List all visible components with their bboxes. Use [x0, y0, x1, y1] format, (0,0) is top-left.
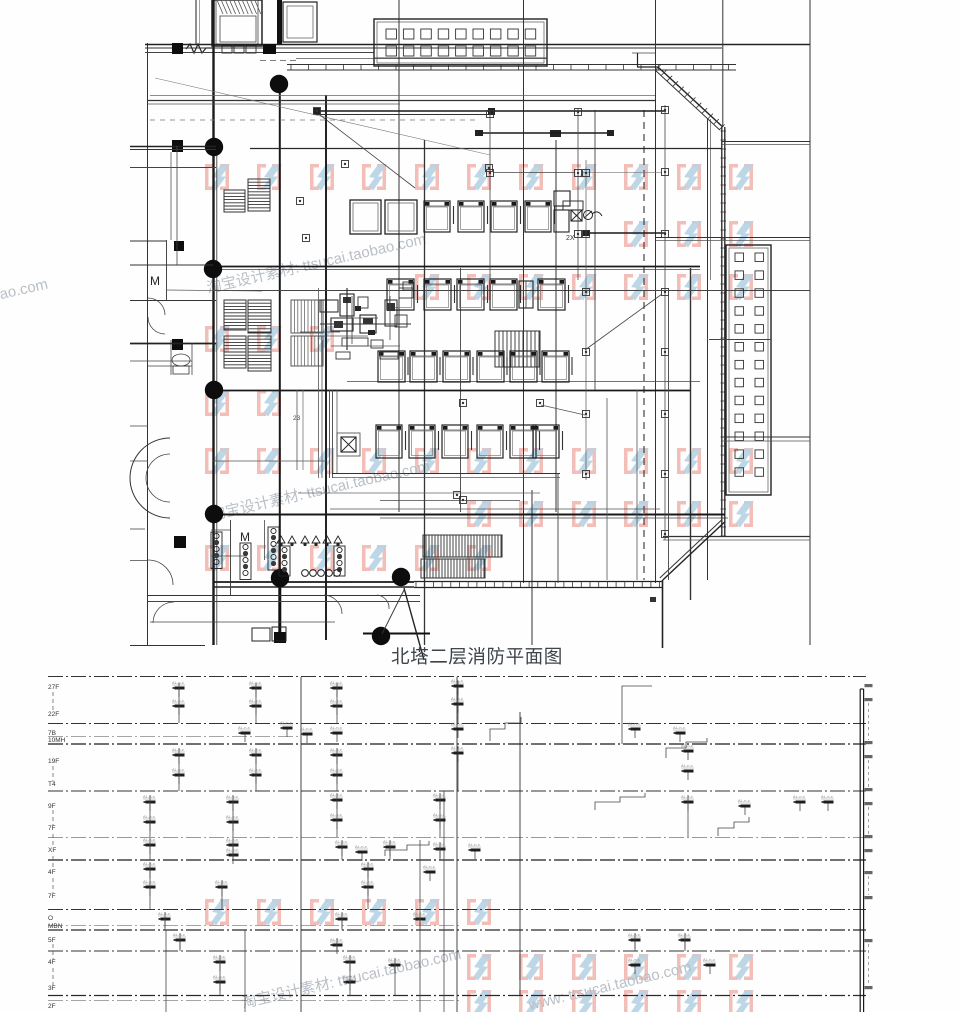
building corner diagonal top-right — [658, 67, 723, 127]
desk row1 — [525, 201, 551, 232]
floor line — [48, 950, 866, 952]
svg-text:AL-n-x: AL-n-x — [143, 814, 155, 819]
floor line — [48, 929, 866, 931]
svg-text:AL-n-x: AL-n-x — [280, 720, 292, 725]
svg-text:AL-n-x: AL-n-x — [673, 725, 685, 730]
grid line G (x=556) — [555, 140, 557, 512]
svg-text:AL-n-x: AL-n-x — [143, 861, 155, 866]
svg-text:AL-n-x: AL-n-x — [821, 794, 833, 799]
floor line — [48, 859, 866, 861]
svg-text:AL-n-x: AL-n-x — [172, 767, 184, 772]
floor line — [48, 925, 460, 927]
svg-text:22F: 22F — [48, 711, 59, 718]
column dot — [271, 569, 289, 587]
walls x=607,637,668 — [606, 398, 608, 580]
desk row line y=381 — [347, 381, 700, 383]
vent hatch block — [224, 300, 246, 330]
stepped connector 3 — [595, 793, 645, 810]
svg-text:AL-n-x: AL-n-x — [143, 837, 155, 842]
wall column square — [174, 241, 184, 251]
grid line x=722 upper — [722, 0, 724, 127]
svg-text:AL-n-x: AL-n-x — [213, 954, 225, 959]
desk row1 — [491, 201, 517, 232]
riser vertical x=245 — [244, 930, 246, 1012]
desk row2 — [387, 279, 414, 310]
stepped connector 1 — [490, 717, 521, 741]
svg-text:AL-n-x: AL-n-x — [330, 792, 342, 797]
pipe x=460 — [460, 268, 462, 512]
wall column square — [172, 43, 183, 54]
pipe line y=114 — [317, 114, 491, 116]
svg-text:AL-n-x: AL-n-x — [238, 725, 250, 730]
svg-text:10MH: 10MH — [48, 737, 66, 744]
grid h-line y=237 — [656, 237, 810, 239]
riser diagram — [48, 191, 873, 1012]
leader (541,405)-(585,415) — [541, 405, 585, 415]
desk row3 — [410, 351, 437, 382]
left rooms partition lines — [130, 146, 216, 148]
thin line y=148.5 — [250, 148, 722, 150]
lines under corridor — [148, 595, 420, 597]
floor line — [48, 995, 866, 997]
wall column square — [263, 44, 276, 54]
vent hatch block — [224, 190, 245, 212]
floor arrow — [52, 834, 54, 848]
desk row4 — [442, 425, 468, 458]
svg-text:AL-n-x: AL-n-x — [330, 747, 342, 752]
svg-text:AL-n-x: AL-n-x — [226, 814, 238, 819]
svg-text:O: O — [48, 915, 53, 922]
svg-text:M: M — [150, 274, 160, 288]
vent hatch block — [248, 300, 271, 333]
valve box X lower — [341, 437, 356, 452]
desk row 1 big squares — [350, 200, 381, 234]
duct run horizontal y=473 — [332, 473, 560, 475]
thin lines y=493/509 — [298, 492, 540, 494]
desk row2 — [538, 279, 565, 310]
grid line A (x=213) — [212, 0, 214, 645]
top edge left of corner — [637, 66, 658, 68]
valve box with X — [571, 210, 582, 221]
svg-text:AL-n-x: AL-n-x — [678, 932, 690, 937]
leader diagonal 3 — [320, 115, 415, 188]
svg-text:AL-n-x: AL-n-x — [383, 839, 395, 844]
svg-text:AL-n-x: AL-n-x — [738, 798, 750, 803]
wall x=690 — [690, 268, 692, 600]
stairwell arcs — [130, 438, 170, 518]
svg-text:2F: 2F — [48, 1003, 56, 1010]
indicator stack — [240, 543, 251, 580]
desk row3 — [542, 351, 569, 382]
svg-text:4F: 4F — [48, 959, 56, 966]
svg-text:AL-n-x: AL-n-x — [249, 767, 261, 772]
branch column risers — [178, 683, 180, 723]
svg-text:AL-n-x: AL-n-x — [213, 974, 225, 979]
floor arrow — [52, 944, 54, 960]
svg-text:7B: 7B — [48, 730, 56, 737]
dashed line y=120 — [150, 119, 480, 121]
leader diagonal 2 — [585, 294, 662, 350]
svg-text:AL-n-x: AL-n-x — [335, 839, 347, 844]
indicator stack — [268, 527, 279, 570]
machine room box — [283, 2, 317, 42]
svg-text:AL-n-x: AL-n-x — [423, 864, 435, 869]
grid line H (x=655) — [655, 0, 657, 583]
wall pair x=707 — [707, 119, 709, 580]
shaft wall thick — [277, 0, 282, 44]
svg-text:MBN: MBN — [48, 923, 63, 930]
svg-text:AL-n-x: AL-n-x — [628, 721, 640, 726]
door arcs bottom-left — [148, 560, 173, 585]
svg-text:5F: 5F — [48, 937, 56, 944]
grid line B (x=279) riser — [279, 92, 281, 569]
svg-text:AL-n-x: AL-n-x — [226, 847, 238, 852]
svg-text:AL-n-x: AL-n-x — [468, 842, 480, 847]
grid h-line y=290 — [213, 290, 810, 292]
svg-text:AL-n-x: AL-n-x — [330, 680, 342, 685]
floor arrow — [52, 766, 54, 782]
svg-text:T4: T4 — [48, 781, 56, 788]
svg-text:7F: 7F — [48, 825, 56, 832]
elevator doors — [222, 45, 232, 53]
stepped connector 7 (top label row) — [622, 686, 652, 700]
leader diagonal 4 — [166, 290, 262, 291]
column dot — [372, 627, 390, 645]
svg-text:AL-n-x: AL-n-x — [355, 844, 367, 849]
window tower right — [726, 245, 771, 495]
svg-text:AL-n-x: AL-n-x — [249, 698, 261, 703]
grid line C (x=326) — [325, 95, 327, 640]
wall x=595 — [594, 110, 596, 390]
toilet fixture — [172, 354, 190, 366]
floor line — [48, 723, 866, 725]
svg-text:AL-n-x: AL-n-x — [330, 725, 342, 730]
desk row3 — [477, 351, 504, 382]
desk row4 — [409, 425, 435, 458]
riser vertical x=301 — [300, 677, 302, 1012]
indicator stack — [334, 546, 345, 576]
building corner diagonal bottom-right — [663, 522, 725, 580]
window facade building — [374, 19, 547, 66]
grid line I (x=810) — [809, 0, 811, 645]
svg-text:19F: 19F — [48, 758, 59, 765]
riser vertical x=444 — [443, 791, 445, 1012]
svg-text:3F: 3F — [48, 985, 56, 992]
tower mid line — [709, 339, 771, 341]
pipe line y=111 — [317, 110, 666, 112]
valve circle — [584, 211, 593, 220]
grid h-line y=141 — [722, 141, 810, 143]
desk row4 — [477, 425, 503, 458]
corridor dark line y=266 — [213, 266, 700, 268]
svg-text:23: 23 — [293, 415, 301, 422]
vent hatch block — [248, 179, 270, 211]
shaft left wall top — [195, 0, 197, 44]
riser vertical x=420 — [419, 840, 421, 1012]
wall break squiggle — [186, 44, 212, 53]
vent hatch block — [495, 331, 540, 367]
svg-text:AL-n-x: AL-n-x — [226, 794, 238, 799]
vent hatch block — [291, 336, 323, 366]
svg-text:AL-n-x: AL-n-x — [343, 954, 355, 959]
svg-text:AL-n-x: AL-n-x — [249, 680, 261, 685]
column dot — [204, 260, 222, 278]
svg-text:AL-n-x: AL-n-x — [143, 794, 155, 799]
svg-text:AL-n-x: AL-n-x — [388, 957, 400, 962]
leader diagonal 1 — [155, 78, 490, 155]
svg-text:XF: XF — [48, 847, 56, 854]
desk row1 — [424, 201, 450, 232]
wall line y=500 — [380, 500, 520, 502]
sprinkler branch x=665 — [664, 105, 666, 540]
floor line — [48, 1000, 460, 1002]
wall column square — [274, 632, 286, 643]
stepped connector 2 — [666, 738, 707, 758]
floor line — [48, 743, 866, 745]
stepped connector 4 — [718, 817, 749, 836]
vent hatch block — [423, 535, 502, 557]
svg-text:AL-n-x: AL-n-x — [681, 794, 693, 799]
floor arrow — [52, 968, 54, 986]
svg-text:AL-n-x: AL-n-x — [681, 763, 693, 768]
svg-text:AL-n-x: AL-n-x — [226, 837, 238, 842]
watermark logo grid — [205, 164, 754, 1012]
desk row2 — [490, 279, 517, 310]
desk row2 — [424, 279, 451, 310]
svg-text:AL-n-x: AL-n-x — [300, 726, 312, 731]
grid h-line y=100 — [148, 100, 656, 102]
wall column square — [172, 339, 183, 350]
svg-text:AL-n-x: AL-n-x — [361, 879, 373, 884]
wall left outer — [147, 43, 149, 645]
pump unit — [554, 191, 570, 206]
svg-text:AL-n-x: AL-n-x — [451, 721, 463, 726]
svg-text:AL-n-x: AL-n-x — [330, 812, 342, 817]
desk row4 — [510, 425, 536, 458]
lines y=536 — [663, 536, 810, 538]
svg-text:AL-n-x: AL-n-x — [143, 879, 155, 884]
floor arrow — [52, 692, 54, 712]
exterior wall right with ticks — [721, 127, 723, 537]
svg-text:7F: 7F — [48, 893, 56, 900]
svg-text:AL-n-x: AL-n-x — [451, 678, 463, 683]
alarm devices row — [277, 536, 285, 543]
svg-text:AL-n-x: AL-n-x — [335, 911, 347, 916]
column dot — [205, 138, 223, 156]
svg-text:AL-n-x: AL-n-x — [451, 745, 463, 750]
grid line D (x=399) — [398, 0, 400, 512]
floor line — [48, 736, 300, 738]
svg-text:AL-n-x: AL-n-x — [172, 698, 184, 703]
corridor dark pair y=582-587 left — [213, 581, 414, 583]
svg-text:AL-n-x: AL-n-x — [215, 879, 227, 884]
svg-text:4F: 4F — [48, 869, 56, 876]
svg-text:AL-n-x: AL-n-x — [433, 812, 445, 817]
svg-text:AL-n-x: AL-n-x — [330, 767, 342, 772]
desk row3 — [510, 351, 537, 382]
wall column square — [174, 536, 186, 548]
wall x=662 lower — [662, 580, 664, 648]
svg-text:AL-n-x: AL-n-x — [793, 794, 805, 799]
svg-text:AL-n-x: AL-n-x — [173, 932, 185, 937]
vent hatch block — [248, 336, 271, 371]
riser vertical x=166 — [165, 930, 167, 1012]
sprinkler heads — [487, 111, 494, 118]
small cabinets bottom — [252, 628, 270, 641]
sprinkler branch x=586 — [585, 160, 587, 480]
column dot — [392, 568, 410, 586]
indicator stack — [211, 532, 222, 569]
floor line — [48, 676, 866, 678]
sprinkler connect line y=172.6 — [493, 172, 575, 174]
svg-text:AL-n-x: AL-n-x — [330, 937, 342, 942]
grid h-line y=95 — [150, 95, 655, 97]
corridor dark line y=390 — [213, 390, 690, 392]
sprinkler branch x=490 — [489, 110, 491, 280]
svg-text:2X: 2X — [566, 235, 575, 242]
desk row3 — [443, 351, 470, 382]
line y=461 — [213, 460, 326, 462]
stepped connector 6 — [484, 190, 486, 192]
bell circles row — [302, 570, 309, 577]
svg-text:AL-n-x: AL-n-x — [413, 911, 425, 916]
section line bottom — [404, 588, 424, 660]
floor line — [48, 909, 866, 911]
vent hatch block — [421, 559, 485, 578]
svg-text:AL-n-x: AL-n-x — [249, 747, 261, 752]
floor arrow — [52, 810, 54, 826]
svg-text:M: M — [240, 530, 250, 544]
stepped connector 5 — [385, 841, 429, 856]
riser vertical x=457 — [456, 677, 458, 1012]
pipe line y=133 — [477, 132, 612, 134]
sprinkler heads row y=403 — [460, 400, 467, 407]
exterior sill tick band top — [287, 64, 736, 66]
grid line E (x=424) — [424, 140, 426, 645]
elevator shaft — [212, 0, 262, 46]
column dot — [270, 75, 288, 93]
column dot — [205, 381, 223, 399]
floor arrow — [52, 878, 54, 893]
pipe bundle verticals x=318-337 — [318, 288, 320, 478]
svg-text:AL-n-x: AL-n-x — [343, 974, 355, 979]
wall top corridor lines — [145, 44, 810, 46]
exterior sill tick band bottom — [414, 581, 663, 583]
riser vertical x=520 — [519, 712, 521, 995]
column line x=644 dashed — [643, 110, 645, 580]
svg-text:AL-n-x: AL-n-x — [172, 680, 184, 685]
desk row4 — [376, 425, 402, 458]
svg-text:AL-n-x: AL-n-x — [361, 861, 373, 866]
desk row4 — [533, 425, 559, 458]
floor line — [48, 837, 866, 839]
svg-text:AL-n-x: AL-n-x — [433, 792, 445, 797]
svg-text:AL-n-x: AL-n-x — [628, 957, 640, 962]
floor line — [48, 790, 866, 792]
desk row2 — [457, 279, 484, 310]
lines y=437 — [722, 436, 810, 438]
svg-text:AL-n-x: AL-n-x — [628, 932, 640, 937]
svg-text:AL-n-x: AL-n-x — [433, 841, 445, 846]
svg-text:北塔二层消防平面图: 北塔二层消防平面图 — [391, 646, 563, 667]
corridor dark line y=514 — [213, 514, 725, 516]
svg-text:AL-n-x: AL-n-x — [703, 957, 715, 962]
svg-text:AL-n-x: AL-n-x — [451, 696, 463, 701]
sprinkler branch x=578 — [577, 108, 579, 280]
pipe line y=233 — [585, 232, 666, 234]
vent hatch block — [224, 336, 246, 368]
desk row3 — [378, 351, 405, 382]
vent hatch block — [291, 300, 323, 333]
duct drop x=558 — [557, 473, 559, 583]
floor arrow — [52, 856, 54, 870]
desk row1 — [458, 201, 484, 232]
column dot — [205, 505, 223, 523]
wall column square — [172, 140, 183, 152]
svg-text:9F: 9F — [48, 803, 56, 810]
svg-text:AL-n-x: AL-n-x — [681, 743, 693, 748]
svg-text:AL-n-x: AL-n-x — [172, 747, 184, 752]
riser taps right — [865, 684, 873, 687]
svg-text:AL-n-x: AL-n-x — [158, 911, 170, 916]
svg-text:27F: 27F — [48, 684, 59, 691]
svg-text:AL-n-x: AL-n-x — [330, 698, 342, 703]
pump room equipment cluster — [320, 300, 338, 312]
indicator stack — [279, 546, 290, 576]
grid line F (x=523) — [523, 0, 525, 583]
main riser right — [859, 689, 861, 1012]
